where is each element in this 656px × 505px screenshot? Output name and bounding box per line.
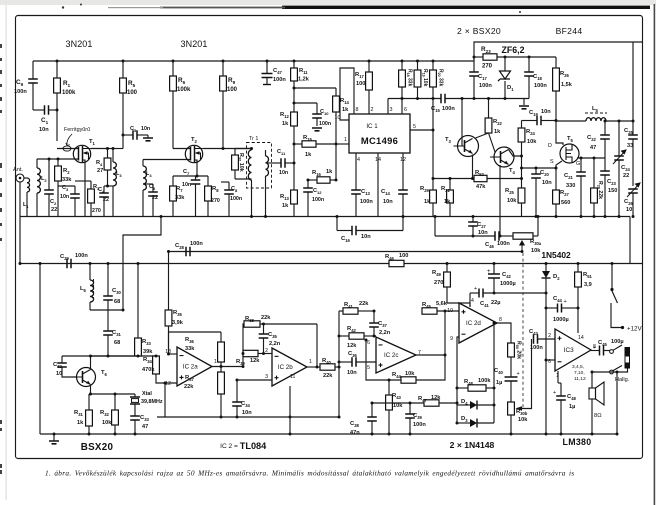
svg-text:1k: 1k: [326, 169, 333, 175]
resistor R45: [422, 308, 437, 314]
svg-text:8Ω: 8Ω: [594, 413, 602, 419]
wire T1 source: [84, 163, 86, 217]
svg-text:1µ: 1µ: [496, 380, 502, 386]
resistor R25: [518, 188, 525, 203]
svg-text:22k: 22k: [184, 384, 194, 390]
capacitor C12: [303, 188, 313, 192]
resistor R35: [165, 310, 172, 326]
svg-text:10n: 10n: [541, 109, 551, 115]
svg-text:C45: C45: [598, 340, 607, 347]
svg-text:C48: C48: [567, 394, 576, 401]
svg-text:10k: 10k: [102, 420, 112, 426]
capacitor C46: [495, 231, 499, 241]
svg-text:T2: T2: [191, 137, 198, 144]
svg-text:C14: C14: [381, 189, 390, 196]
svg-text:C18: C18: [533, 74, 542, 81]
capacitor C42: [488, 274, 500, 278]
capacitor C9: [28, 79, 38, 83]
wire gnd stub of bias line: [523, 99, 525, 106]
svg-text:2,2n: 2,2n: [269, 341, 281, 347]
capacitor C34: [232, 402, 242, 406]
wire IC2b output: [316, 324, 318, 367]
svg-text:1k: 1k: [342, 107, 349, 113]
svg-text:1N5402: 1N5402: [541, 250, 571, 260]
svg-text:100n: 100n: [75, 253, 88, 259]
resistor R52: [474, 175, 487, 181]
transistor T3 (BSX20): [458, 136, 479, 157]
svg-text:C33: C33: [140, 415, 149, 422]
svg-text:1µ: 1µ: [569, 404, 575, 410]
svg-text:C40: C40: [494, 368, 503, 375]
svg-text:R16: R16: [312, 170, 321, 177]
svg-text:100n: 100n: [360, 199, 373, 205]
svg-text:100n: 100n: [273, 77, 286, 83]
svg-text:14: 14: [578, 335, 584, 341]
svg-text:L6: L6: [80, 286, 87, 293]
capacitor C5: [133, 130, 137, 140]
svg-text:R44: R44: [392, 372, 401, 379]
capacitor C8: [224, 190, 234, 194]
capacitor C28: [186, 247, 190, 257]
svg-text:Ferritgyűrű: Ferritgyűrű: [64, 127, 90, 133]
svg-text:11,12: 11,12: [574, 376, 586, 382]
svg-text:T5: T5: [567, 136, 574, 143]
resistor R29: [430, 190, 437, 203]
resistor R26: [553, 68, 560, 91]
wire C43 line: [517, 339, 532, 409]
wire R52 line: [433, 178, 474, 180]
inductor L2: [37, 168, 40, 193]
resistor R23: [483, 54, 497, 60]
svg-text:R14: R14: [340, 98, 349, 105]
svg-text:6: 6: [404, 107, 407, 113]
svg-text:7,10,: 7,10,: [574, 370, 585, 376]
capacitor C47: [262, 74, 273, 78]
resistor R41: [343, 308, 358, 314]
wire T1 gate1: [37, 158, 79, 160]
svg-text:10n: 10n: [347, 370, 357, 376]
wire R41/R42/C36 input column: [338, 311, 340, 368]
wire source line to C20/R25: [522, 167, 557, 169]
svg-text:100n: 100n: [230, 196, 242, 202]
Tr1 primary: [248, 150, 251, 180]
svg-text:C29: C29: [60, 254, 69, 261]
svg-text:5: 5: [413, 124, 416, 130]
svg-text:100n: 100n: [319, 121, 331, 127]
svg-text:R11: R11: [299, 68, 308, 75]
antenna input: [16, 174, 24, 182]
capacitor C3: [70, 194, 80, 198]
svg-text:L5: L5: [592, 106, 599, 113]
svg-text:5: 5: [367, 365, 370, 371]
wire IC2d output: [497, 323, 511, 343]
resistor R20: [430, 70, 437, 87]
wire IC1 pin12 / C14: [402, 153, 404, 190]
capacitor C17: [469, 72, 479, 76]
svg-text:1: 1: [344, 137, 347, 143]
svg-text:R37: R37: [185, 375, 194, 382]
svg-text:10n: 10n: [361, 234, 371, 240]
svg-text:10n: 10n: [39, 127, 49, 133]
svg-text:33k: 33k: [185, 346, 195, 352]
svg-text:R22: R22: [493, 119, 502, 126]
svg-text:100k: 100k: [62, 90, 76, 96]
svg-text:C28: C28: [175, 243, 184, 250]
resistor R40: [320, 364, 335, 370]
svg-text:C4: C4: [98, 187, 105, 194]
resistor R15: [302, 141, 316, 147]
svg-text:10k: 10k: [527, 139, 537, 145]
resistor R2: [55, 166, 62, 181]
potentiometer R30b: [508, 402, 515, 415]
capacitor C10: [312, 114, 322, 118]
resistor R27: [553, 190, 560, 204]
svg-text:D4: D4: [461, 399, 468, 406]
capacitor C38: [367, 417, 377, 421]
svg-text:68: 68: [114, 299, 120, 305]
svg-text:+: +: [564, 299, 567, 305]
svg-text:C7: C7: [183, 169, 190, 176]
wire R12 node to C10: [294, 102, 317, 104]
wire T6 emitter: [90, 385, 92, 395]
capacitor C1: [45, 105, 49, 115]
inductor L1: [27, 178, 30, 192]
capacitor C18: [524, 72, 534, 76]
mechanical link (dashed): [522, 253, 524, 408]
svg-text:47n: 47n: [350, 430, 360, 436]
svg-text:R42: R42: [347, 326, 356, 333]
svg-text:1k: 1k: [444, 199, 451, 205]
svg-text:R30b: R30b: [516, 409, 528, 416]
svg-text:IC 2a: IC 2a: [183, 364, 198, 371]
svg-text:C2: C2: [50, 199, 57, 206]
speaker: [589, 388, 596, 399]
svg-text:10k: 10k: [405, 371, 415, 377]
svg-text:100: 100: [127, 90, 138, 96]
wire R47 line: [372, 402, 424, 404]
svg-text:100n: 100n: [442, 106, 455, 112]
wire IC2b pin11: [289, 386, 291, 434]
resistor R7: [170, 186, 177, 201]
resistor R9: [220, 76, 227, 91]
svg-text:C41: C41: [480, 301, 489, 308]
resistor R19: [414, 70, 421, 87]
svg-text:R31: R31: [74, 410, 83, 417]
svg-text:12k: 12k: [431, 395, 441, 401]
svg-text:D3: D3: [461, 416, 468, 423]
svg-text:C3: C3: [62, 185, 69, 192]
wire T1 drain node: [108, 148, 124, 150]
svg-text:R51: R51: [583, 272, 592, 279]
svg-text:R28 22k: R28 22k: [596, 181, 603, 199]
capacitor C31: [103, 331, 113, 335]
capacitor C7: [191, 180, 201, 184]
capacitor C40: [510, 357, 512, 377]
svg-text:C12: C12: [313, 188, 322, 195]
wire T2 drain: [203, 148, 252, 150]
svg-text:22: 22: [103, 197, 109, 203]
svg-text:C37: C37: [378, 321, 387, 328]
wire IC1 pin5: [410, 129, 433, 131]
svg-text:R21: R21: [441, 186, 450, 193]
svg-text:R4: R4: [96, 160, 103, 167]
svg-text:C34: C34: [241, 401, 250, 408]
svg-text:100k: 100k: [177, 87, 191, 93]
svg-text:100n: 100n: [14, 89, 27, 95]
resistor R33: [135, 338, 142, 356]
svg-text:C30: C30: [112, 288, 121, 295]
svg-text:C22: C22: [587, 135, 596, 142]
wire secondary to C11: [266, 162, 282, 164]
wire right bus link: [629, 217, 631, 264]
wire IC1 pin6: [401, 87, 403, 114]
svg-text:IC3: IC3: [564, 347, 574, 354]
svg-text:10k: 10k: [531, 248, 541, 254]
resistor R3: [88, 189, 95, 203]
wire IC1 pin14: [377, 153, 379, 217]
resistor R42: [349, 333, 364, 339]
wire R40 node drop: [338, 367, 340, 417]
ferrite bead: [63, 146, 71, 151]
svg-text:12k: 12k: [347, 343, 357, 349]
svg-text:R43: R43: [392, 393, 401, 400]
capacitor C4: [99, 193, 109, 197]
svg-text:2 × BSX20: 2 × BSX20: [457, 26, 501, 36]
capacitor C37: [369, 323, 379, 327]
wire coupling to IC2b R39: [242, 354, 244, 367]
headphone plug (black): [625, 347, 631, 369]
wire T1 drain: [91, 148, 108, 150]
svg-text:IC 2d: IC 2d: [466, 320, 481, 327]
resistor R22: [485, 118, 492, 133]
svg-text:+: +: [487, 269, 491, 275]
svg-text:27: 27: [97, 168, 103, 174]
wire T2 gate2: [173, 148, 191, 150]
capacitor C32: [57, 363, 67, 367]
svg-text:10k: 10k: [393, 403, 403, 409]
svg-text:3: 3: [265, 374, 268, 380]
wire IC1 pin3: [387, 99, 389, 115]
svg-text:R38: R38: [245, 316, 254, 323]
svg-text:BF244: BF244: [556, 26, 583, 36]
wire IC2a feedback R36: [169, 353, 178, 355]
resistor R5: [120, 78, 127, 93]
resistor R47: [424, 400, 439, 406]
wire IC2d pin9: [457, 337, 459, 423]
wire feedback right rail: [493, 323, 495, 423]
svg-text:T4: T4: [509, 168, 516, 175]
svg-text:R13: R13: [280, 194, 289, 201]
svg-text:100n: 100n: [497, 241, 510, 247]
svg-text:C44: C44: [553, 296, 562, 303]
svg-text:1000µ: 1000µ: [553, 317, 569, 323]
capacitor C48: [556, 396, 566, 400]
svg-text:C23: C23: [607, 179, 616, 186]
svg-text:R27: R27: [560, 190, 569, 197]
capacitor C41: [479, 289, 483, 298]
svg-text:10n: 10n: [182, 182, 191, 188]
svg-text:R39: R39: [236, 359, 245, 366]
wire C41 supply bypass: [469, 293, 471, 307]
svg-text:22: 22: [51, 207, 57, 213]
headphone jack contact 2: [610, 370, 614, 374]
svg-text:R12: R12: [280, 112, 289, 119]
svg-text:8: 8: [356, 107, 359, 113]
variable capacitor C26: [628, 189, 638, 193]
svg-text:4: 4: [357, 157, 360, 163]
resistor R18: [399, 70, 406, 87]
svg-text:6: 6: [367, 340, 370, 346]
svg-text:22k: 22k: [323, 373, 333, 379]
svg-text:R47: R47: [418, 396, 427, 403]
svg-text:R15: R15: [303, 135, 312, 142]
resistor R49: [444, 272, 451, 287]
svg-text:R32: R32: [100, 410, 109, 417]
capacitor C16: [352, 226, 356, 236]
wire IC2a output: [212, 366, 243, 368]
svg-text:TL084: TL084: [240, 441, 267, 451]
svg-text:10: 10: [447, 308, 453, 314]
svg-text:270: 270: [211, 198, 220, 204]
svg-text:270: 270: [92, 208, 101, 214]
svg-text:100n: 100n: [190, 241, 203, 247]
svg-text:12k: 12k: [250, 358, 260, 364]
svg-text:11: 11: [290, 374, 295, 380]
svg-text:IC 2b: IC 2b: [278, 364, 293, 371]
svg-text:IC 2c: IC 2c: [384, 352, 398, 359]
capacitor C19: [537, 116, 541, 126]
wire bias line C15: [388, 98, 441, 100]
resistor R8: [205, 186, 212, 201]
svg-text:+: +: [593, 345, 596, 351]
svg-text:1k: 1k: [424, 199, 431, 205]
svg-text:R45: R45: [422, 302, 431, 309]
svg-text:C17: C17: [478, 74, 487, 81]
svg-text:1k: 1k: [77, 420, 84, 426]
svg-text:R41: R41: [344, 302, 353, 309]
svg-text:33: 33: [627, 143, 633, 149]
wire IC2a pin12: [165, 383, 177, 417]
capacitor C21: [576, 172, 586, 176]
svg-text:C26: C26: [624, 199, 633, 206]
svg-text:C43: C43: [529, 329, 538, 336]
svg-text:39,8MHz: 39,8MHz: [141, 399, 163, 405]
wire T2 gate1: [143, 159, 191, 161]
capacitor C29: [67, 259, 71, 269]
svg-text:100n: 100n: [312, 197, 324, 203]
svg-text:100: 100: [399, 253, 408, 259]
resistor R38: [244, 321, 260, 327]
wire ZF6,2 supply loop: [474, 42, 643, 61]
transistor T6 (BSX20): [77, 368, 96, 387]
svg-text:IC 1: IC 1: [366, 123, 378, 130]
capacitor C39: [405, 414, 415, 418]
svg-text:MC1496: MC1496: [361, 135, 398, 146]
svg-text:47: 47: [142, 424, 148, 430]
capacitor C43: [534, 334, 538, 344]
svg-text:IC 2 =: IC 2 =: [220, 443, 238, 450]
svg-text:10n: 10n: [141, 126, 150, 132]
svg-text:Tr 1: Tr 1: [249, 136, 258, 142]
svg-text:560: 560: [561, 200, 570, 206]
svg-text:1k: 1k: [282, 203, 289, 209]
svg-text:22: 22: [152, 195, 158, 201]
svg-text:T6: T6: [101, 370, 108, 377]
wire R11 to R14: [294, 87, 336, 89]
svg-text:R30a: R30a: [530, 239, 542, 246]
svg-text:10k: 10k: [507, 198, 517, 204]
svg-text:10n: 10n: [383, 199, 393, 205]
svg-text:C39: C39: [413, 413, 422, 420]
wire T5 source: [556, 161, 562, 217]
svg-text:L3: L3: [116, 171, 122, 178]
wire IC2b pin2 line: [258, 353, 272, 355]
svg-text:22k: 22k: [261, 315, 271, 321]
svg-text:G: G: [576, 161, 580, 167]
resistor R6: [170, 76, 177, 91]
svg-text:2,2n: 2,2n: [379, 330, 391, 336]
svg-text:10n: 10n: [279, 170, 288, 176]
capacitor C6: [148, 192, 158, 196]
Tr1 secondary: [266, 156, 269, 176]
svg-text:5,6k: 5,6k: [436, 301, 448, 307]
svg-text:C20: C20: [540, 170, 549, 177]
transistor T2 (3N201): [185, 145, 202, 162]
svg-text:R35: R35: [173, 310, 182, 317]
resistor R39: [243, 350, 258, 356]
svg-text:1k: 1k: [305, 152, 312, 158]
capacitor C25: [628, 135, 638, 139]
wire L6/C30 bottom: [90, 309, 123, 311]
resistor R51: [575, 272, 582, 287]
wire IC1 pin4 / C13: [355, 153, 357, 190]
svg-text:C35: C35: [268, 332, 277, 339]
svg-text:L1: L1: [23, 202, 29, 209]
wire jack return: [592, 369, 628, 373]
wire IC3 output: [591, 350, 600, 352]
resistor R32b: [112, 410, 119, 425]
svg-text:C11: C11: [277, 149, 286, 156]
svg-text:C27: C27: [477, 222, 486, 229]
wire C27 branch: [472, 217, 474, 223]
svg-text:100µ: 100µ: [611, 339, 624, 345]
capacitor C36: [352, 357, 356, 367]
svg-text:C24: C24: [621, 165, 630, 172]
capacitor C22: [600, 135, 610, 139]
wire IC3 pin1: [557, 371, 559, 383]
wire IC3 pin6: [546, 359, 555, 361]
capacitor C11: [281, 158, 285, 168]
resistor R11: [291, 68, 298, 81]
resistor R36: [218, 342, 225, 362]
op-amp IC2c: [376, 337, 416, 373]
svg-text:3N201: 3N201: [65, 39, 92, 49]
svg-text:2: 2: [548, 333, 551, 339]
resistor R17: [366, 72, 373, 90]
svg-text:10: 10: [335, 115, 341, 121]
resistor R28: [591, 188, 598, 203]
wire T2 source: [196, 163, 198, 177]
svg-text:22: 22: [623, 173, 629, 179]
svg-text:10n: 10n: [242, 410, 252, 416]
IC U1 MC1496: [349, 114, 410, 153]
wire ground rail (lower): [40, 433, 617, 435]
svg-text:R24: R24: [526, 129, 535, 136]
svg-text:R29: R29: [420, 186, 429, 193]
wire C46/R30a line: [434, 217, 436, 237]
svg-text:39k: 39k: [143, 349, 153, 355]
svg-text:1k: 1k: [282, 121, 289, 127]
